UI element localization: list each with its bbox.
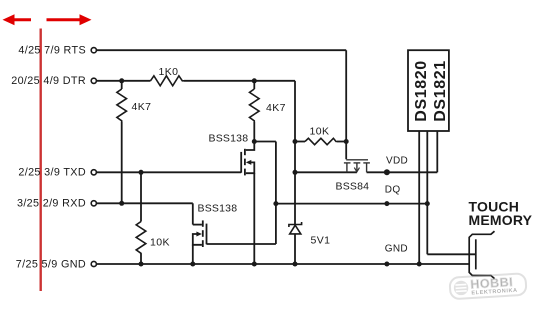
wire RXD horizontal (97, 202, 193, 204)
terminal DTR (91, 78, 96, 83)
wire 4K7 R3 bottom to drain node (253, 122, 255, 142)
junction GND label dot (384, 262, 389, 267)
junction zener column / VDD row (293, 170, 298, 175)
wire 10K R5 bottom to GND (140, 254, 142, 265)
zener diode D1 (289, 222, 302, 234)
svg-text:DQ: DQ (385, 185, 401, 196)
IC U1 DS1820/DS1821 (408, 50, 449, 131)
wire DQ to touch memory inner contact (427, 253, 476, 255)
red arrow right (47, 14, 92, 25)
wire DTR after 1K0 to corner (184, 80, 295, 82)
resistor R4 10K (305, 138, 337, 144)
transistor Q3 BSS84 (344, 160, 370, 173)
junction DQ label dot (384, 201, 389, 206)
junction GND / R5 (139, 262, 144, 267)
wire DS pin 2 down to DQ (426, 131, 428, 204)
resistor R2 4K7 (117, 89, 127, 122)
wire GND horizontal (97, 263, 469, 265)
wire TXD dot down to 10K R5 (140, 172, 142, 221)
svg-text:MEMORY: MEMORY (469, 212, 533, 228)
junction GND / Q1 source (252, 262, 257, 267)
wire BSS84 gate from 10K right (345, 142, 347, 160)
wire VDD row right (367, 171, 438, 173)
junction TXD / R5 (139, 170, 144, 175)
transistor Q2 BSS138 (193, 220, 207, 247)
wire DTR terminal to 1K0 (97, 80, 151, 82)
arrow Q2 body (196, 232, 202, 237)
touch memory connector outer contact (469, 231, 494, 278)
watermark hobbi elektronika (449, 273, 526, 299)
wire zener column upper (294, 142, 296, 225)
svg-text:VDD: VDD (386, 156, 408, 167)
svg-text:4K7: 4K7 (266, 102, 286, 114)
resistor R1 1K0 (151, 76, 185, 86)
wire DTR corner down zener column top (294, 81, 296, 142)
svg-text:BSS138: BSS138 (198, 203, 238, 215)
wire DS pin 1 down to GND (418, 131, 420, 264)
wire 4K7 R2 bottom to RXD (121, 122, 123, 203)
junction GND / Q2 source (190, 262, 195, 267)
svg-text:7/25 5/9 GND: 7/25 5/9 GND (16, 258, 86, 270)
svg-text:5V1: 5V1 (311, 235, 331, 247)
junction DQ branch (273, 201, 278, 206)
wire zener column lower to GND (294, 234, 296, 264)
wire VDD row left (295, 171, 357, 173)
terminal GND (91, 261, 96, 266)
terminal RTS (91, 48, 96, 53)
svg-text:DS1821: DS1821 (432, 60, 449, 121)
junction DTR / R3 (252, 78, 257, 83)
wire DQ down from pin 2 to touch row (426, 204, 428, 255)
resistor R3 4K7 (250, 89, 260, 122)
terminal TXD (91, 170, 96, 175)
arrow Q3 body (354, 168, 359, 172)
touch memory connector inner contact (475, 239, 477, 269)
wire DTR dot down to 4K7 R3 (253, 81, 255, 89)
wire DQ row (276, 203, 427, 205)
wire Q2 source down to GND (192, 245, 194, 264)
wire DTR dot down to 4K7 R2 (121, 81, 123, 89)
transistor Q1 BSS138 (241, 142, 254, 176)
wire drain node to vertical link (254, 141, 276, 143)
svg-text:4/25 7/9 RTS: 4/25 7/9 RTS (18, 45, 86, 57)
wire TXD horizontal to gate Q1 (97, 171, 241, 173)
wire 10K R4 left stub (295, 141, 305, 143)
junction DTR / R2 (119, 78, 124, 83)
svg-text:1K0: 1K0 (159, 66, 179, 78)
junction DQ / DS pin 2 (425, 201, 430, 206)
wire Q1 source down to GND (253, 173, 255, 264)
junction zener column / R4 (293, 139, 298, 144)
svg-text:10K: 10K (150, 237, 170, 249)
red arrow left (3, 14, 32, 25)
svg-text:BSS84: BSS84 (336, 181, 370, 193)
svg-text:2/25 3/9 TXD: 2/25 3/9 TXD (18, 167, 86, 179)
svg-text:DS1820: DS1820 (413, 60, 430, 121)
terminal RXD (91, 201, 96, 206)
wire vertical link drain Q1 to gate Q2 (275, 142, 277, 245)
junction drain node Q1 (252, 139, 257, 144)
wire gate Q2 row (207, 243, 276, 245)
svg-text:4K7: 4K7 (132, 101, 152, 113)
arrow Q1 body (246, 160, 252, 165)
junction RXD / R2 (119, 201, 124, 206)
wire VDD corner up to DS pin 3 (436, 131, 438, 172)
junction R4 / RTS / gate Q3 (344, 139, 349, 144)
red separator line (40, 29, 42, 292)
wire RTS horizontal (97, 49, 346, 51)
svg-text:GND: GND (385, 244, 408, 255)
junction GND / DS pin 1 (417, 262, 422, 267)
resistor R5 10K (136, 222, 146, 254)
junction VDD label dot (384, 169, 390, 175)
wire RXD corner down to Q2 drain (192, 203, 194, 224)
svg-text:BSS138: BSS138 (209, 133, 249, 145)
svg-text:10K: 10K (310, 126, 330, 138)
junction GND / zener (293, 262, 298, 267)
wire RTS corner down to 10K right (345, 50, 347, 141)
wire 10K R4 right stub (337, 141, 346, 143)
svg-text:3/25 2/9 RXD: 3/25 2/9 RXD (17, 198, 86, 210)
svg-text:20/25 4/9 DTR: 20/25 4/9 DTR (11, 75, 86, 87)
